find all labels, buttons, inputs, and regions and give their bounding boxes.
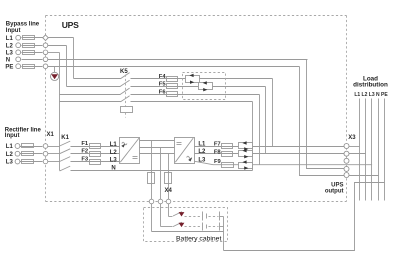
battery string 2	[161, 222, 224, 230]
thyristor pair output L1	[239, 141, 253, 150]
wire DC link mid	[140, 147, 175, 149]
wire K5 row1	[74, 78, 121, 80]
wire bypass row2 drop to output L2	[265, 87, 267, 154]
svg-text:L3: L3	[6, 50, 14, 56]
wire PE drop to X3	[300, 67, 345, 176]
node rectifier L1 terminal	[15, 144, 20, 149]
node X3 terminal N	[344, 166, 349, 171]
contactor K1 blades	[60, 141, 71, 171]
battery cells 2	[202, 223, 204, 231]
wire DC link +	[140, 140, 175, 142]
wire X3 L2 to load bus 2	[349, 153, 366, 155]
svg-text:L2: L2	[198, 149, 206, 155]
wire L3/N drop vertical	[59, 53, 61, 171]
switch battery 2	[173, 222, 182, 226]
node X2 connector PE	[43, 64, 48, 69]
rectifier U1 (AC/DC)	[120, 138, 140, 164]
wire bypass L3 row	[22, 52, 43, 54]
svg-text:L3: L3	[6, 160, 14, 166]
node X3 terminal L2	[344, 151, 349, 156]
static bypass switch module (dashed)	[183, 73, 226, 100]
svg-text:UPS: UPS	[62, 20, 79, 30]
svg-text:F1: F1	[81, 141, 89, 147]
wire X3 L1 to load bus 1	[349, 146, 360, 148]
wire K5 row4	[60, 101, 121, 103]
node X1 connector L2	[43, 151, 48, 156]
wire rectifier L2 row	[20, 153, 43, 155]
wire bypass PE row	[22, 66, 43, 68]
node bypass N terminal	[16, 57, 21, 62]
wire rectifier L3 row	[20, 161, 43, 163]
wire load bus N	[378, 99, 380, 201]
wire N drop to X3	[307, 60, 345, 169]
node X2 connector L2	[43, 43, 48, 48]
wire bypass row3 drop to output L3	[259, 95, 261, 165]
switch battery 1	[173, 212, 182, 216]
node X4 terminal 2	[158, 199, 163, 204]
inverter U2 (DC/AC)	[175, 138, 195, 164]
svg-text:K1: K1	[61, 135, 69, 141]
wire bypass L2 row	[22, 45, 43, 47]
wire output L2 row	[195, 153, 345, 155]
wire K5 row3	[60, 94, 121, 96]
wire K5 row2	[67, 86, 121, 88]
svg-text:F6: F6	[159, 89, 167, 95]
wire load bus L3	[371, 99, 373, 201]
svg-text:Input: Input	[6, 28, 21, 34]
wire L1 drop to K5 row1	[73, 38, 75, 79]
svg-text:F5: F5	[159, 81, 167, 87]
node bypass L3 terminal	[16, 50, 21, 55]
wire battery join vertical	[223, 217, 225, 251]
wire DC link -	[140, 153, 175, 155]
wire bypass N row	[22, 59, 43, 61]
contactor K5	[120, 69, 133, 118]
svg-text:L2: L2	[6, 43, 14, 49]
svg-text:F8: F8	[214, 149, 222, 155]
earth marker on PE (red arrow)	[51, 67, 59, 81]
wire output L3 row	[194, 161, 372, 165]
battery cabinet enclosure (dashed)	[144, 208, 228, 242]
wire battery drop -	[168, 154, 170, 217]
svg-text:Bypass line: Bypass line	[6, 21, 40, 27]
wire X3 PE to load bus N column	[349, 175, 379, 177]
node X2 connector L3	[43, 50, 48, 55]
wire load bus L2	[365, 99, 367, 201]
node X1 connector L1	[43, 144, 48, 149]
node X4 terminal 1	[149, 199, 154, 204]
node X1 connector L3	[43, 159, 48, 164]
fuse battery -	[165, 173, 172, 184]
fuse bypass PE input	[23, 65, 35, 69]
wire battery PE to load PE bus	[224, 183, 385, 251]
node X3 terminal L1	[344, 144, 349, 149]
wire L2 drop to K5 row2	[66, 46, 68, 87]
svg-text:PE: PE	[5, 64, 13, 70]
wire rectifier L1 row	[20, 146, 43, 148]
svg-text:L3: L3	[110, 158, 118, 164]
svg-text:N: N	[6, 57, 10, 63]
fuse battery +	[148, 173, 155, 184]
battery string 1	[169, 212, 224, 221]
svg-text:output: output	[325, 188, 344, 194]
svg-text:X4: X4	[165, 188, 173, 194]
wire bypass L1 row	[22, 37, 43, 39]
svg-text:F2: F2	[81, 149, 88, 155]
svg-text:L1: L1	[6, 144, 14, 150]
node bypass L1 terminal	[16, 35, 21, 40]
wire output L1 row	[195, 146, 345, 148]
node X4 terminal 3	[166, 199, 171, 204]
battery cells 1	[202, 212, 204, 221]
svg-text:L2: L2	[6, 152, 14, 158]
thyristor pair bypass L1	[186, 74, 200, 84]
thyristor pair output L2	[239, 149, 253, 158]
fuse rectifier L1 input	[22, 144, 34, 148]
fuse bypass L2 input	[23, 44, 35, 48]
svg-text:distribution: distribution	[353, 81, 388, 88]
thyristor pair bypass L2	[199, 81, 213, 91]
wire load bus L1	[359, 99, 361, 201]
thyristor pair output L3	[239, 160, 253, 169]
svg-text:X3: X3	[348, 135, 356, 141]
wire N line	[60, 170, 61, 172]
svg-text:F9: F9	[214, 159, 222, 165]
node X3 terminal L3	[344, 158, 349, 163]
fuse rectifier L3 input	[22, 160, 34, 164]
svg-text:F3: F3	[81, 157, 89, 163]
svg-text:Input: Input	[5, 133, 20, 139]
node rectifier L3 terminal	[15, 159, 20, 164]
svg-text:L1: L1	[6, 36, 14, 42]
svg-text:Battery cabinet: Battery cabinet	[176, 236, 221, 243]
node bypass L2 terminal	[16, 43, 21, 48]
wire load bus PE	[384, 99, 386, 201]
node X3 terminal PE	[344, 173, 349, 178]
wire bypass row4 drop to N line	[252, 102, 254, 171]
wire bypass row1 drop to output L1	[272, 79, 274, 147]
fuse bypass L3 input	[23, 51, 35, 55]
node bypass PE terminal	[16, 64, 21, 69]
UPS enclosure dashed boundary	[46, 16, 347, 202]
wire battery drop mid	[160, 148, 162, 227]
svg-text:X1: X1	[47, 132, 55, 138]
svg-text:L1 L2 L3 N PE: L1 L2 L3 N PE	[354, 92, 388, 98]
wire battery drop +	[151, 141, 153, 232]
svg-text:L1: L1	[110, 142, 118, 148]
node rectifier L2 terminal	[15, 151, 20, 156]
svg-text:F7: F7	[214, 142, 221, 148]
node X2 connector N	[43, 57, 48, 62]
wire battery bottom rail	[152, 231, 224, 233]
fuse bypass L1 input	[23, 36, 35, 40]
svg-text:L2: L2	[110, 150, 118, 156]
svg-text:F4: F4	[159, 74, 167, 80]
fuse rectifier L2 input	[22, 152, 34, 156]
node X2 connector L1 (diamond)	[43, 35, 49, 41]
